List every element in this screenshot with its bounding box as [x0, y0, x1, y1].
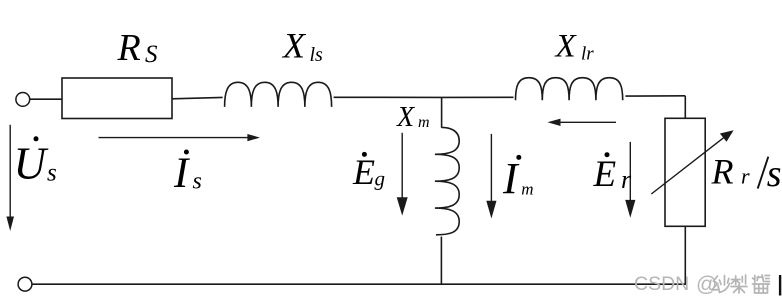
svg-text:X: X: [554, 29, 578, 65]
svg-text:CSDN: CSDN: [634, 273, 689, 295]
arrow voltage U_s: [9, 125, 11, 218]
label R_S: [117, 27, 159, 69]
wire: [442, 96, 514, 98]
svg-text:E: E: [352, 152, 375, 192]
svg-text:r: r: [741, 163, 750, 188]
wire: [172, 97, 223, 98]
arrow current I_m: [490, 134, 492, 202]
node junction to magnetizing branch: [441, 97, 443, 128]
arrow current I_s: [99, 137, 249, 139]
inductor X_ls: [225, 82, 332, 107]
svg-text:s: s: [767, 153, 782, 195]
svg-text:X: X: [281, 25, 307, 65]
label I_s: [173, 150, 202, 197]
label E_g: [352, 152, 385, 192]
inductor X_m: [435, 127, 459, 234]
label X_m: [396, 102, 430, 133]
wire: [30, 98, 62, 100]
resistor R_S: [62, 78, 172, 119]
wire: [625, 95, 685, 97]
label X_lr: [554, 29, 595, 65]
svg-text:S: S: [145, 41, 158, 68]
svg-text:@: @: [696, 273, 717, 296]
terminal input top: [16, 93, 30, 107]
arrow emf E_r: [629, 142, 631, 201]
wire: [684, 96, 686, 119]
svg-text:s: s: [193, 168, 202, 194]
label E_r: [593, 152, 633, 195]
watermark CSDN: [634, 273, 717, 296]
svg-text:R: R: [117, 27, 141, 69]
svg-text:I: I: [173, 150, 190, 197]
svg-text:I: I: [502, 154, 520, 203]
label U_s: [14, 136, 57, 188]
svg-text:U: U: [14, 139, 49, 189]
svg-text:E: E: [593, 154, 617, 195]
terminal input bottom: [18, 277, 32, 291]
svg-text:m: m: [418, 114, 430, 131]
wire: [684, 226, 686, 285]
svg-text:s: s: [47, 160, 57, 187]
resistor R_r/s: [665, 118, 705, 226]
wire: [440, 237, 442, 285]
label R_r/s: [711, 151, 782, 195]
arrow emf E_g: [401, 133, 403, 199]
arrow variable resistor: [651, 138, 723, 194]
arrow current I_r: [559, 121, 616, 123]
wire: [334, 96, 442, 98]
svg-text:ls: ls: [310, 44, 324, 66]
svg-text:R: R: [711, 151, 734, 191]
svg-text:m: m: [521, 180, 533, 199]
crop mark right edge: [779, 275, 781, 296]
svg-text:r: r: [621, 165, 632, 194]
inductor X_lr: [516, 78, 623, 101]
label X_ls: [281, 25, 323, 66]
watermark handle glyphs: [712, 275, 770, 293]
svg-text:X: X: [396, 102, 415, 133]
wire bottom bus: [32, 283, 686, 285]
svg-text:lr: lr: [581, 44, 594, 65]
label I_m: [502, 154, 534, 203]
svg-text:g: g: [375, 166, 386, 190]
